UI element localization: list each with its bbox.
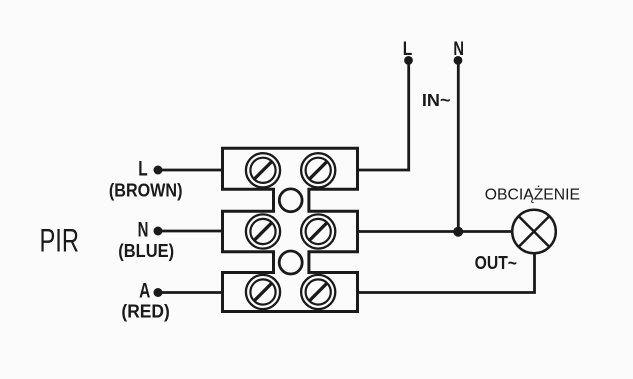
screw terminal 1 (block1 left) xyxy=(246,153,280,187)
screw terminal 4 (block2 right) xyxy=(301,214,335,248)
terminal block body xyxy=(223,148,358,311)
svg-text:N: N xyxy=(138,219,149,242)
lamp load symbol xyxy=(512,210,556,254)
wire block3-to-lamp-bottom xyxy=(358,253,535,292)
hole circle top channel xyxy=(279,189,302,212)
svg-text:(BROWN): (BROWN) xyxy=(109,180,183,201)
hole circle bottom channel xyxy=(279,251,302,274)
wire A-left xyxy=(158,291,223,294)
svg-text:IN~: IN~ xyxy=(422,90,451,110)
screw terminal 2 (block1 right) xyxy=(301,153,335,187)
svg-text:OUT~: OUT~ xyxy=(475,252,518,273)
svg-text:L: L xyxy=(138,158,148,181)
svg-text:N: N xyxy=(453,38,464,60)
node A-left terminal dot xyxy=(154,288,163,297)
svg-text:A: A xyxy=(139,280,150,303)
wire block2-to-lamp xyxy=(358,230,513,233)
wire N-left xyxy=(158,230,223,233)
node L-top terminal dot xyxy=(404,56,413,65)
svg-text:PIR: PIR xyxy=(40,223,80,259)
node L-left terminal dot xyxy=(154,166,163,175)
screw terminal 3 (block2 left) xyxy=(246,214,280,248)
wire block1-to-L-top xyxy=(358,60,409,170)
svg-text:L: L xyxy=(403,38,413,60)
wire N-top-down xyxy=(457,60,460,231)
node N-left terminal dot xyxy=(154,227,163,236)
svg-text:OBCIĄŻENIE: OBCIĄŻENIE xyxy=(485,185,580,204)
svg-text:(RED): (RED) xyxy=(121,301,169,322)
screw terminal 6 (block3 right) xyxy=(301,275,335,309)
svg-text:(BLUE): (BLUE) xyxy=(118,241,174,262)
screw terminal 5 (block3 left) xyxy=(246,275,280,309)
wire L-left xyxy=(158,169,223,172)
junction dot N/lamp xyxy=(453,227,463,237)
node N-top terminal dot xyxy=(454,56,463,65)
